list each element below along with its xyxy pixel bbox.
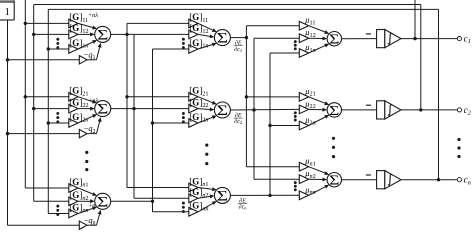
- wire r1 bus vertical: [126, 23, 128, 187]
- integrator row n: [377, 171, 385, 189]
- wire feedback bus cn (left): [47, 9, 49, 213]
- wire r2 bus vertical: [133, 34, 135, 198]
- amplifier [G]n1 col2: [189, 183, 198, 192]
- wire input c1 to [G]n1: [25, 187, 69, 189]
- terminal c2: [457, 108, 461, 112]
- wire rn to [G]2n col2: [153, 122, 189, 124]
- arrow mu1n to summer: [309, 46, 325, 53]
- wire dEdc2 to mun2: [254, 178, 299, 180]
- wire dEdc2: S2 row2 out to mu22: [230, 108, 299, 111]
- minus sign row 2: [366, 104, 371, 106]
- wire dEdc2 bus vertical: [253, 38, 255, 179]
- wire dEdcn: S2 rown out to munn: [230, 194, 299, 196]
- amplifier [G]21 col2: [189, 93, 198, 102]
- wire feedback bus c1 (left): [24, 0, 26, 188]
- arrow [G]n2 to summer: [78, 200, 90, 202]
- wire -q1 input: [8, 59, 80, 61]
- svg-text:Σ: Σ: [97, 26, 108, 43]
- wire rn to [G]nn col2: [153, 211, 189, 213]
- wire r2 to [G]12 col2: [134, 33, 189, 35]
- wire dEdc2 to mu12: [254, 37, 299, 39]
- amplifier [G]11+nl: [69, 19, 78, 28]
- arrow munn to summer: [309, 187, 326, 196]
- svg-text:1: 1: [5, 7, 10, 18]
- terminal cn: [457, 178, 461, 182]
- wire integrator row 2 to terminal c2: [401, 109, 457, 111]
- arrow [G]nn col2 to summer: [198, 203, 213, 212]
- wire r1: S1 row1 out to bus: [111, 33, 134, 35]
- amplifier munn: [299, 191, 308, 200]
- arrow [G]1n to summer: [78, 42, 93, 49]
- vdots col1 row 2: [56, 112, 59, 115]
- svg-text:Σ: Σ: [97, 101, 108, 118]
- arrow mu2n to summer: [309, 117, 326, 126]
- arrow [G]2n to summer: [78, 116, 93, 123]
- wire top feedback line c2: [34, 4, 421, 6]
- wire input cn to [G]nn: [48, 213, 69, 215]
- wire rn: S1 rown out to bus: [111, 200, 153, 202]
- wire bias bus from box 1 (node 1): [7, 20, 9, 225]
- wire input cn to [G]2n: [48, 122, 69, 124]
- svg-text:∂c1: ∂c1: [234, 46, 242, 53]
- amplifier [G]2n: [69, 119, 78, 128]
- svg-text:Σ: Σ: [329, 33, 339, 48]
- arrow [G]22 to summer: [78, 108, 90, 110]
- wire input c1 to [G]21: [25, 96, 69, 98]
- amplifier [G]1n: [69, 45, 78, 54]
- svg-text:Σ: Σ: [329, 174, 339, 189]
- wire integrator row n to terminal cn: [401, 179, 457, 181]
- vdots col2 row 2: [182, 112, 185, 115]
- integrator row 2: [377, 101, 385, 119]
- arrow [G]1n col2 to summer: [198, 45, 212, 49]
- wire dEdc1 bus vertical: [245, 26, 247, 167]
- vdots between rows col1: [85, 151, 88, 154]
- amplifier [G]n1: [69, 184, 78, 193]
- svg-text:Σ: Σ: [217, 30, 228, 47]
- wire dEdc1: S2 row1 out: [230, 37, 246, 39]
- svg-text:∂cn: ∂cn: [239, 204, 248, 211]
- minus sign row n: [366, 174, 371, 176]
- arrow mun1 to summer: [309, 167, 325, 173]
- summer S3 row 2: [327, 103, 341, 117]
- wire input c2 to [G]22: [34, 108, 69, 110]
- arrow [G]n1 to summer: [78, 188, 93, 194]
- amplifier [G]12 col2: [189, 30, 198, 39]
- arrow -qn to summer: [87, 224, 97, 226]
- amplifier mu12: [299, 34, 308, 43]
- amplifier [G]nn col2: [189, 208, 198, 217]
- wire r2 to [G]n2 col2: [134, 197, 189, 199]
- amplifier mu11: [299, 21, 308, 30]
- wire rn jog to [G]nn: [152, 201, 154, 212]
- svg-text:Σ: Σ: [97, 193, 108, 210]
- amplifier -q1: [79, 56, 87, 64]
- summer S2 row n: [214, 187, 230, 203]
- vdots col1 row n: [56, 205, 59, 208]
- terminal c1: [457, 37, 461, 41]
- wire r1 to [G]n1 col2: [127, 187, 189, 189]
- amplifier [G]n2 col2: [189, 194, 198, 203]
- wire dEdc1 to mun1: [246, 166, 299, 168]
- svg-text:∂c2: ∂c2: [234, 118, 243, 125]
- vdots between rows col2: [205, 144, 208, 147]
- summer S2 row 2: [214, 102, 230, 118]
- amplifier [G]12: [69, 30, 78, 39]
- arrow [G]n2 col2 to summer: [198, 197, 210, 199]
- summer S3 row 1: [327, 32, 341, 46]
- svg-text:Σ: Σ: [217, 187, 228, 204]
- wire S3 row 2 to integrator: [342, 109, 377, 111]
- wire input c2 to [G]n2: [34, 200, 69, 202]
- wire top feedback line cn: [48, 8, 438, 10]
- wire r1 to [G]21 col2: [127, 96, 189, 98]
- wire dEdcn to mu1n: [270, 52, 299, 54]
- wire -q2 input: [8, 133, 80, 135]
- arrow [G]11 to summer: [78, 23, 93, 27]
- vdots col2 row 1: [182, 38, 185, 41]
- vdots between rows outputs: [457, 138, 460, 141]
- integrator row 1: [377, 30, 385, 48]
- summer S1 row 1: [95, 26, 111, 42]
- vdots col3 row 1: [294, 40, 297, 43]
- arrow [G]12 to summer: [78, 33, 90, 35]
- amplifier mun1: [299, 162, 308, 171]
- wire rn bus vertical: [152, 49, 154, 212]
- wire dEdcn bus vertical: [269, 53, 271, 195]
- wire rn to [G]1n col2: [153, 48, 189, 50]
- amplifier [G]2n col2: [189, 119, 198, 128]
- arrow mu21 to summer: [309, 97, 325, 103]
- wire integrator row 1 to terminal c1: [401, 38, 457, 40]
- arrow [G]nn to summer: [78, 208, 93, 213]
- arrow [G]2n col2 to summer: [198, 117, 212, 123]
- arrow -q1 to summer: [87, 59, 97, 61]
- wire input c2 to [G]12: [34, 33, 69, 35]
- wire S3 row 1 to integrator: [342, 38, 377, 40]
- wire r1 to [G]11 col2: [127, 22, 189, 24]
- wire c1 feedback riser: [414, 0, 416, 39]
- arrow mun2 to summer: [309, 178, 323, 180]
- wire dEdc1 to mu11: [246, 25, 299, 27]
- amplifier -q2: [79, 129, 87, 137]
- summer S1 row 2: [95, 101, 111, 117]
- amplifier [G]11 col2: [189, 19, 198, 28]
- amplifier [G]22+nl: [69, 104, 78, 113]
- arrow [G]22 col2 to summer: [198, 108, 210, 111]
- vdots col2 row n: [182, 202, 185, 205]
- input source box 1: [0, 0, 14, 3]
- amplifier mu21: [299, 93, 308, 102]
- summer S1 row n: [95, 193, 111, 209]
- amplifier [G]1n col2: [189, 45, 198, 54]
- summer S3 row n: [327, 173, 341, 187]
- vdots col1 row 1: [56, 38, 59, 41]
- amplifier [G]nn+nl: [69, 209, 78, 218]
- wire feedback bus c2 (left): [33, 5, 35, 202]
- svg-text:Σ: Σ: [329, 104, 339, 119]
- arrow [G]11 col2 to summer: [198, 23, 212, 30]
- amplifier mu1n: [299, 49, 308, 58]
- amplifier mu22: [299, 105, 308, 114]
- minus sign row 1: [366, 33, 371, 35]
- amplifier [G]n2: [69, 197, 78, 206]
- arrow -q2 to summer: [87, 133, 97, 135]
- amplifier -qn: [79, 221, 87, 229]
- arrow [G]n1 col2 to summer: [198, 188, 212, 190]
- wire dEdcn to mu2n: [270, 125, 299, 127]
- svg-text:Σ: Σ: [217, 102, 228, 119]
- arrow [G]21 col2 to summer: [198, 97, 212, 103]
- wire input cn to [G]1n: [48, 48, 69, 50]
- arrow [G]21 to summer: [78, 97, 93, 102]
- amplifier mu2n: [299, 121, 308, 130]
- wire dEdc1 to mu21: [246, 96, 299, 98]
- amplifier [G]22 col2: [189, 104, 198, 113]
- arrow mu11 to summer: [309, 26, 325, 32]
- amplifier mun2: [299, 175, 308, 184]
- arrow [G]12 col2 to summer: [198, 34, 210, 36]
- vdots col3 row 2: [294, 111, 297, 114]
- arrow mu22 to summer: [309, 108, 323, 110]
- wire S3 row n to integrator: [342, 179, 377, 181]
- wire r2: S1 row2 out to [G]22 col2: [111, 108, 189, 110]
- wire input c1 to [G]11: [25, 22, 69, 24]
- vdots between rows col3: [332, 137, 335, 140]
- arrow mu12 to summer: [309, 37, 323, 39]
- amplifier [G]21: [69, 93, 78, 102]
- summer S2 row 1: [214, 30, 230, 46]
- vdots col3 row n: [294, 181, 297, 184]
